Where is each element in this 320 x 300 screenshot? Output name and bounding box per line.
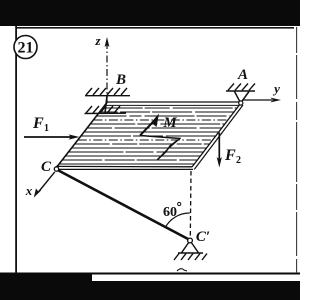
force F1 arrow <box>24 136 72 138</box>
svg-text:21: 21 <box>18 40 34 57</box>
support C' base hatch <box>174 253 207 260</box>
support B ceiling hatch <box>85 88 130 96</box>
frame top line <box>16 27 294 29</box>
plate left edge <box>56 103 107 169</box>
moment M zigzag arrow <box>157 138 180 160</box>
bottom black bar <box>0 281 300 300</box>
support B lower hatch <box>85 106 127 114</box>
svg-text:2: 2 <box>236 155 241 166</box>
svg-text:F: F <box>32 115 44 132</box>
force F2 arrow <box>218 133 220 161</box>
plate shading lines <box>59 108 237 164</box>
support C' triangle <box>182 242 199 253</box>
support A hatch <box>226 84 255 92</box>
plate bottom edge <box>56 165 192 167</box>
bottom squiggle <box>177 269 187 271</box>
variant number circle 21 <box>14 36 37 59</box>
svg-text:A: A <box>237 67 248 83</box>
frame bottom line <box>0 273 300 275</box>
svg-text:F: F <box>224 147 236 164</box>
svg-text:60: 60 <box>163 205 177 220</box>
plate top edge <box>107 101 241 103</box>
rod C C' <box>59 171 190 240</box>
support A legs <box>235 92 250 102</box>
node C pin <box>54 167 58 171</box>
svg-text:x: x <box>25 183 33 198</box>
svg-text:C: C <box>41 159 52 175</box>
dashed line to C' <box>189 171 192 237</box>
plate right edge <box>192 104 241 168</box>
top black bar <box>0 0 300 26</box>
svg-text:y: y <box>272 81 280 96</box>
support A pin <box>239 101 243 105</box>
svg-text:C′: C′ <box>196 229 210 245</box>
svg-text:B: B <box>115 72 126 88</box>
frame right line <box>296 27 298 273</box>
svg-text:M: M <box>162 115 177 131</box>
svg-text:z: z <box>94 33 101 48</box>
x axis <box>38 172 55 193</box>
y axis <box>243 99 272 101</box>
support B link <box>105 96 107 113</box>
z axis <box>106 44 108 103</box>
angle arc 60 <box>165 213 190 228</box>
support C' pin <box>188 238 193 243</box>
frame left line <box>15 26 17 273</box>
svg-text:1: 1 <box>44 123 49 134</box>
